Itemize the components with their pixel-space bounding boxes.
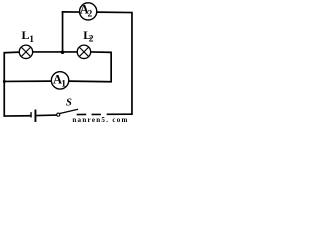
lamp L2 bbox=[77, 45, 90, 58]
wire dash segment 2 after switch bbox=[92, 113, 101, 115]
wire vertical L2 branch down to A1 row bbox=[110, 52, 112, 82]
wire top-right horizontal (A2 right lead) bbox=[97, 11, 133, 13]
svg-text:1: 1 bbox=[29, 35, 34, 45]
ammeter A2 bbox=[80, 3, 97, 20]
battery negative short plate bbox=[30, 112, 32, 117]
wire dash segment 1 after switch bbox=[77, 113, 87, 115]
wire top-left horizontal (A2 left lead) bbox=[62, 11, 80, 13]
wire lamp-row left segment bbox=[4, 51, 20, 54]
wire vertical from top loop down to lamp row bbox=[62, 11, 64, 52]
wire left outer vertical bbox=[3, 52, 5, 117]
switch S pivot contact bbox=[57, 113, 60, 116]
svg-text:nanren5. com: nanren5. com bbox=[72, 116, 128, 122]
wire lamp-row middle segment bbox=[32, 51, 77, 53]
lamp L1 bbox=[19, 45, 32, 58]
switch S lever (open) bbox=[60, 109, 78, 113]
svg-text:S: S bbox=[66, 98, 72, 109]
node junction dot on left vertical at A1 row bbox=[3, 80, 6, 83]
battery positive long plate bbox=[34, 110, 36, 122]
ammeter A1 bbox=[51, 72, 68, 89]
svg-text:1: 1 bbox=[61, 79, 66, 89]
wire bottom-right horizontal to corner bbox=[107, 113, 133, 115]
wire right outer vertical bbox=[131, 12, 133, 115]
wire battery to switch bbox=[36, 114, 56, 117]
wire lamp-row right segment bbox=[90, 51, 112, 53]
node junction dot on lamp row bbox=[61, 50, 65, 54]
wire A1 row right segment bbox=[69, 80, 112, 83]
wire A1 row left segment bbox=[4, 80, 52, 82]
svg-text:2: 2 bbox=[89, 35, 94, 45]
wire bottom-left horizontal to battery bbox=[4, 115, 31, 117]
svg-text:2: 2 bbox=[88, 10, 93, 20]
